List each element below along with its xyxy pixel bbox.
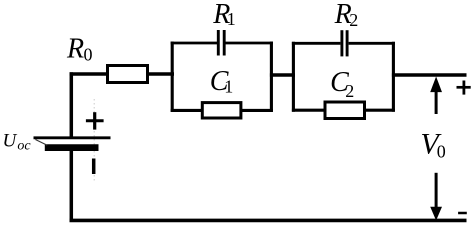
svg-text:1: 1 <box>227 9 236 29</box>
svg-text:1: 1 <box>224 76 233 96</box>
svg-text:U: U <box>3 130 18 151</box>
svg-text:0: 0 <box>437 142 446 162</box>
svg-text:oc: oc <box>17 138 31 153</box>
svg-text:0: 0 <box>84 44 93 64</box>
svg-text:R: R <box>66 34 84 65</box>
svg-text:2: 2 <box>345 81 354 101</box>
svg-text:2: 2 <box>349 10 358 30</box>
